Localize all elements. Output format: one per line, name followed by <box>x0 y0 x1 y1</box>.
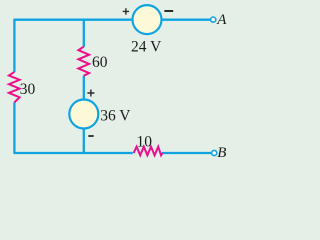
svg-text:B: B <box>217 145 226 161</box>
plus sign of 36 V source <box>87 90 94 97</box>
voltage source 24 V (circle) <box>133 5 162 34</box>
wire top horizontal right segment <box>161 19 210 21</box>
wire bottom horizontal left segment <box>13 152 132 154</box>
wire left vertical lower <box>13 102 15 153</box>
wire middle vertical upper <box>83 19 85 47</box>
minus sign of 24 V source <box>164 10 173 12</box>
resistor 60 (zigzag) <box>78 47 89 76</box>
minus sign of 36 V source <box>88 135 93 137</box>
svg-text:60: 60 <box>92 54 108 71</box>
wire bottom horizontal right segment <box>162 152 212 154</box>
svg-text:36 V: 36 V <box>100 107 131 124</box>
svg-text:A: A <box>216 12 227 28</box>
svg-text:30: 30 <box>20 81 36 98</box>
plus sign of 24 V source <box>123 8 129 14</box>
terminal B <box>212 150 217 155</box>
wire left vertical upper <box>13 19 15 72</box>
terminal A <box>211 17 216 22</box>
wire middle vertical between resistor and 36V source <box>83 76 85 100</box>
wire middle vertical below 36V source <box>83 129 85 154</box>
resistor 10 (zigzag) <box>134 147 163 156</box>
resistor 30 (zigzag) <box>9 72 20 103</box>
svg-text:10: 10 <box>137 134 153 151</box>
wire top horizontal left segment <box>14 19 132 21</box>
voltage source 36 V (circle) <box>69 100 98 129</box>
svg-text:24 V: 24 V <box>131 38 162 55</box>
